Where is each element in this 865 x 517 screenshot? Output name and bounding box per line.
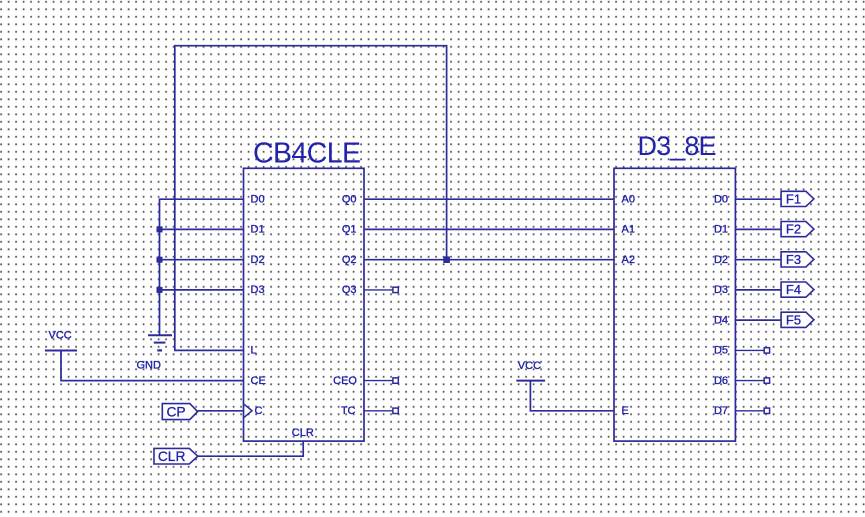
svg-text:E: E (622, 405, 629, 417)
svg-text:GND: GND (137, 360, 162, 372)
svg-text:D1: D1 (251, 224, 265, 236)
svg-text:D5: D5 (714, 345, 728, 357)
svg-text:F3: F3 (786, 252, 801, 267)
svg-text:D7: D7 (714, 405, 728, 417)
svg-text:CLR: CLR (158, 449, 186, 464)
svg-text:F5: F5 (786, 312, 801, 327)
svg-text:Q0: Q0 (342, 193, 357, 205)
svg-text:CP: CP (166, 405, 185, 420)
svg-text:A0: A0 (622, 193, 635, 205)
svg-text:D4: D4 (714, 314, 728, 326)
svg-text:TC: TC (341, 405, 356, 417)
svg-text:Q1: Q1 (342, 224, 357, 236)
svg-text:CEO: CEO (333, 375, 357, 387)
svg-text:CE: CE (251, 375, 266, 387)
svg-text:C: C (255, 405, 263, 417)
svg-text:D0: D0 (714, 193, 728, 205)
svg-text:CLR: CLR (292, 427, 314, 439)
svg-text:A1: A1 (622, 224, 635, 236)
svg-text:Q3: Q3 (342, 284, 357, 296)
svg-text:D3_8E: D3_8E (638, 131, 717, 161)
svg-text:Q2: Q2 (342, 254, 357, 266)
svg-text:A2: A2 (622, 254, 635, 266)
svg-text:D3: D3 (714, 284, 728, 296)
svg-text:D0: D0 (251, 193, 265, 205)
svg-text:D2: D2 (714, 254, 728, 266)
svg-text:D3: D3 (251, 284, 265, 296)
svg-text:VCC: VCC (49, 329, 72, 341)
svg-text:VCC: VCC (518, 360, 541, 372)
svg-text:D6: D6 (714, 375, 728, 387)
svg-text:D1: D1 (714, 224, 728, 236)
svg-text:F1: F1 (786, 192, 801, 207)
svg-text:CB4CLE: CB4CLE (253, 138, 361, 170)
svg-text:L: L (251, 345, 257, 357)
svg-text:F2: F2 (786, 222, 801, 237)
svg-text:D2: D2 (251, 254, 265, 266)
svg-text:F4: F4 (786, 282, 801, 297)
